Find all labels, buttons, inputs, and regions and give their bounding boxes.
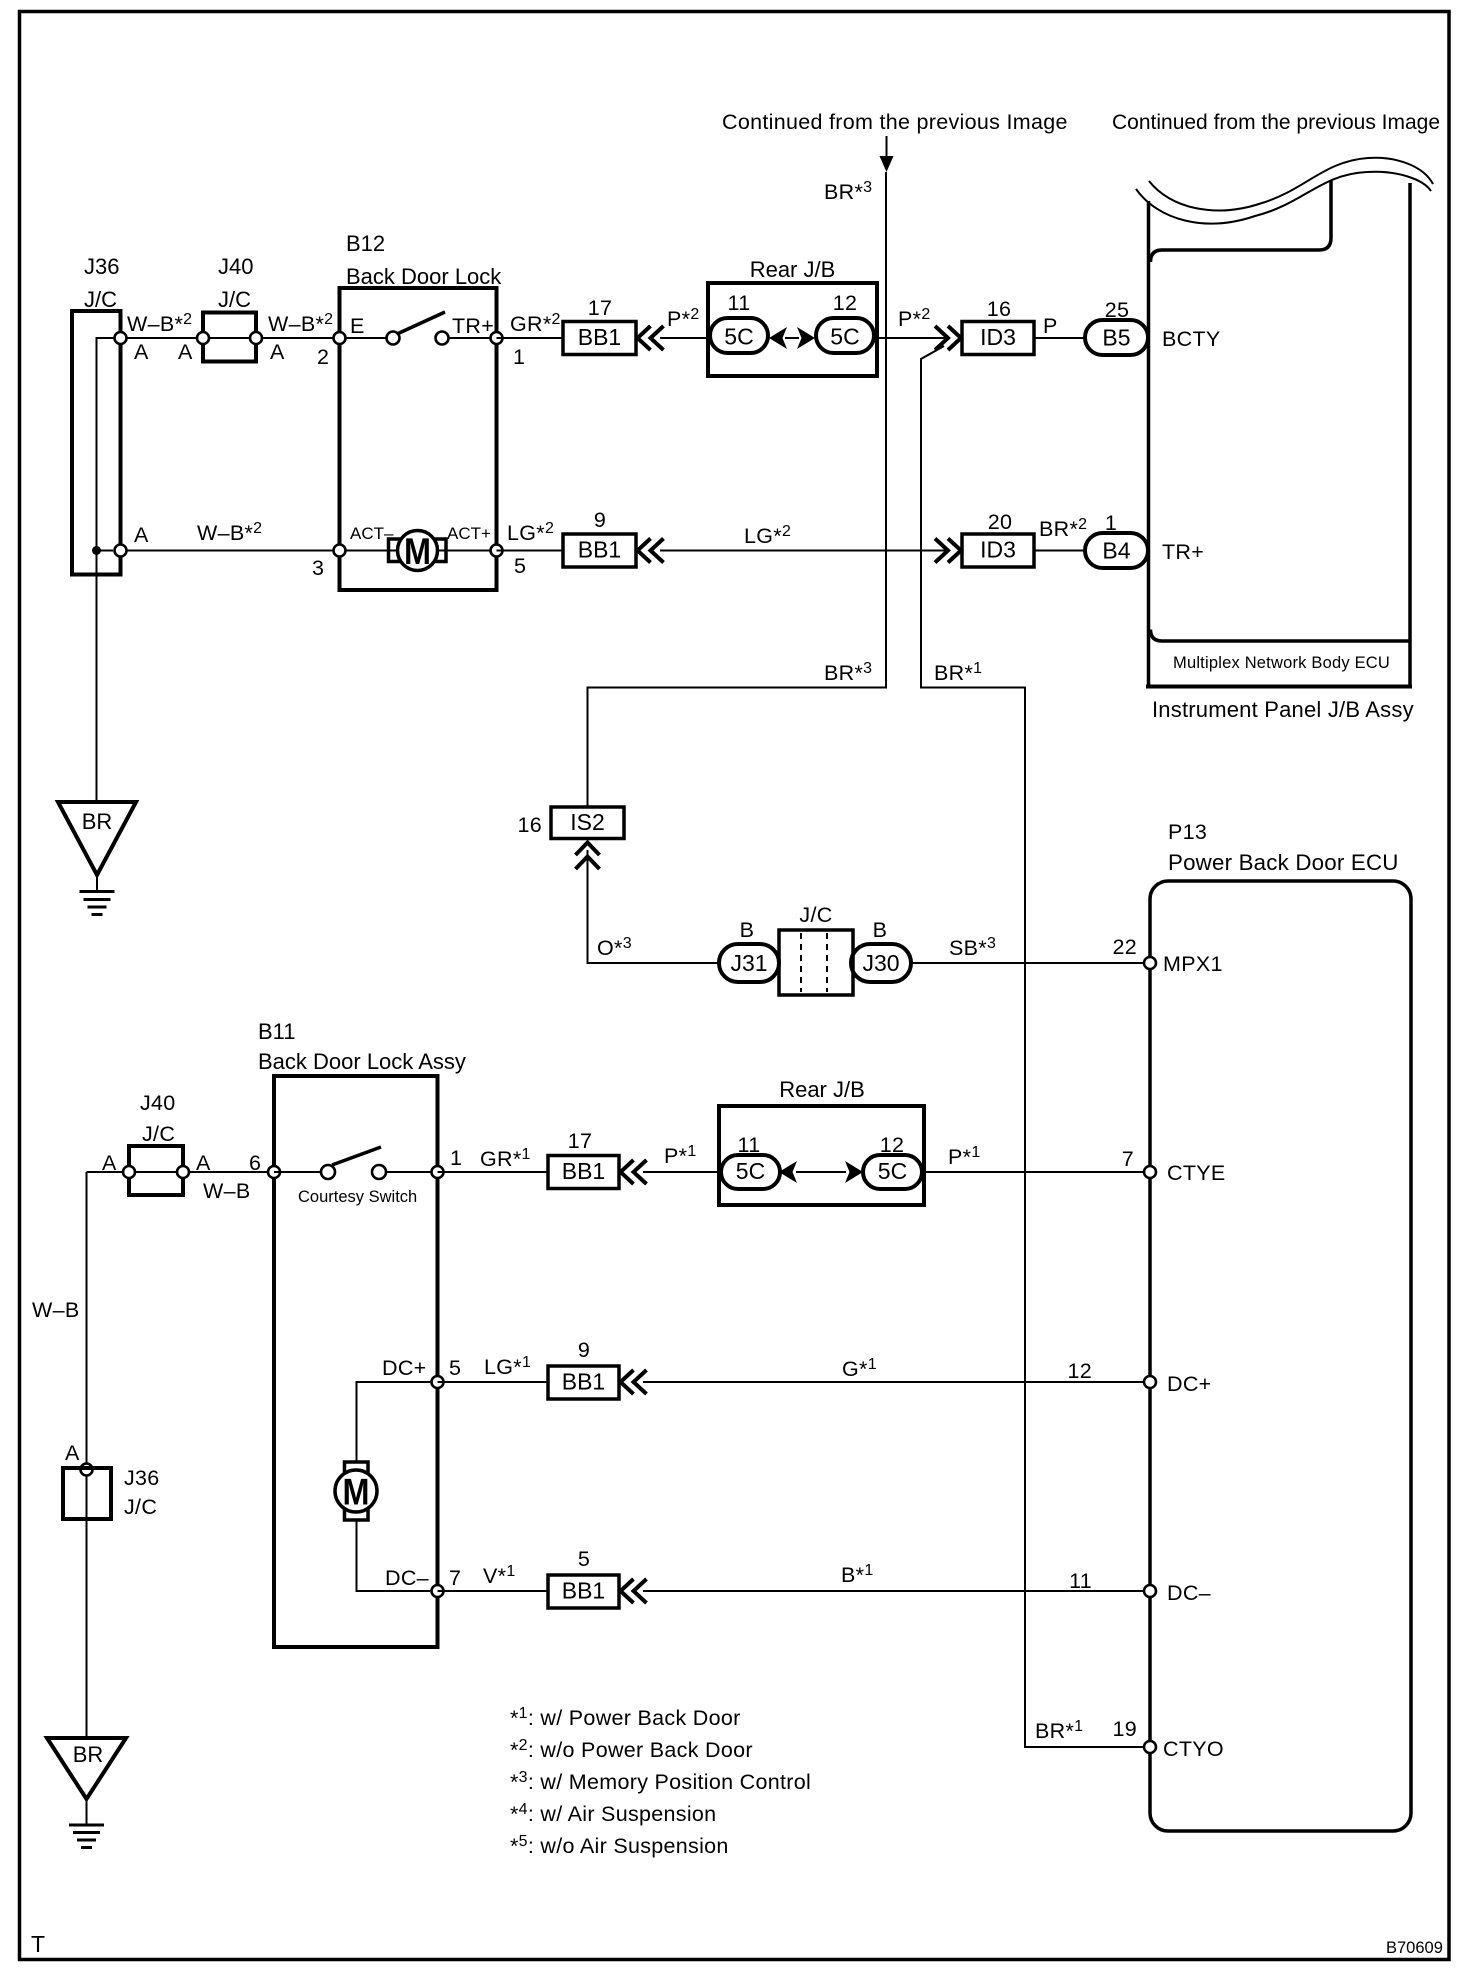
switch S2 lever — [332, 1147, 381, 1165]
svg-text:Power Back Door ECU: Power Back Door ECU — [1168, 850, 1399, 875]
svg-text:A: A — [134, 340, 149, 364]
pin 3 — [334, 545, 346, 557]
continued-from text left — [722, 110, 1068, 134]
B11 back door lock assy — [258, 1019, 466, 1647]
svg-text:ACT+: ACT+ — [447, 524, 491, 543]
label LG*2 — [744, 523, 791, 548]
label TR+ — [452, 314, 494, 338]
pin 5 B11 — [432, 1376, 444, 1388]
pin 1 — [491, 332, 503, 344]
pin A J36 — [115, 332, 127, 344]
wire J30 to MPX1 — [911, 962, 1144, 964]
svg-text:BB1: BB1 — [562, 1578, 605, 1604]
svg-text:Instrument Panel J/B Assy: Instrument Panel J/B Assy — [1152, 697, 1414, 722]
svg-text:3: 3 — [312, 556, 324, 580]
rear J/B (top) — [708, 257, 877, 376]
wire BB1 to DC+ pin — [643, 1381, 1144, 1383]
svg-text:DC–: DC– — [1167, 1581, 1211, 1605]
wire pin7 to BB1 — [438, 1590, 549, 1592]
svg-text:11: 11 — [728, 291, 751, 315]
svg-text:A: A — [65, 1441, 80, 1465]
svg-text:*1: w/ Power Back Door: *1: w/ Power Back Door — [510, 1705, 741, 1730]
label courtesy switch — [298, 1188, 417, 1206]
power back door ECU P13 — [1150, 820, 1411, 1831]
svg-text:5C: 5C — [724, 324, 753, 350]
pin A J40 lower left — [123, 1166, 135, 1178]
svg-text:17: 17 — [588, 296, 613, 320]
label B*1 — [841, 1562, 874, 1587]
connector B4 pin 1 — [1085, 511, 1148, 568]
multiplex ECU top line — [1151, 630, 1411, 642]
bottom edge — [1146, 685, 1412, 689]
label 12 — [1067, 1359, 1092, 1383]
label TR+ — [1162, 540, 1204, 564]
pin 5 — [491, 545, 503, 557]
svg-text:J/C: J/C — [124, 1495, 157, 1519]
torn edge wave lower — [1136, 172, 1431, 224]
label CTYE — [1167, 1161, 1226, 1185]
chevron female row1 — [638, 326, 664, 350]
svg-text:DC–: DC– — [385, 1566, 429, 1590]
svg-text:ID3: ID3 — [980, 324, 1016, 350]
connector 5C pin 11 lower — [721, 1133, 780, 1189]
pin A J40 left — [197, 332, 209, 344]
svg-text:J/C: J/C — [84, 287, 117, 312]
pin CTYO — [1144, 1741, 1156, 1753]
svg-text:Rear J/B: Rear J/B — [779, 1077, 865, 1102]
label A — [270, 340, 285, 364]
wire BR*1 branch — [921, 346, 1144, 1747]
chevron male up IS2 — [576, 843, 600, 870]
label P*1 — [664, 1143, 697, 1168]
wire switch to pin1 B11 — [379, 1171, 438, 1173]
instrument panel J/B assy (top right) — [1136, 158, 1433, 722]
wire left to B11 pin6 — [87, 1171, 275, 1173]
continued-from text right — [1112, 111, 1440, 134]
wire switch to pin1 — [442, 337, 497, 339]
svg-text:W–B*2: W–B*2 — [127, 311, 192, 336]
mating arrows — [769, 327, 815, 349]
svg-text:MPX1: MPX1 — [1163, 952, 1223, 976]
svg-text:DC+: DC+ — [382, 1356, 427, 1380]
svg-text:A: A — [102, 1151, 117, 1175]
label B70609 — [1386, 1939, 1443, 1957]
svg-text:P13: P13 — [1168, 820, 1207, 844]
svg-text:Back Door Lock: Back Door Lock — [346, 264, 502, 289]
svg-text:5C: 5C — [830, 324, 859, 350]
wire rear J/B to ID3 — [877, 337, 948, 339]
svg-text:W–B: W–B — [203, 1179, 251, 1203]
svg-text:CTYO: CTYO — [1163, 1737, 1224, 1761]
svg-text:9: 9 — [578, 1338, 590, 1362]
svg-text:E: E — [350, 314, 365, 338]
svg-text:TR+: TR+ — [452, 314, 494, 338]
label T — [31, 1931, 45, 1957]
label W-B*2 — [197, 520, 262, 545]
svg-text:B4: B4 — [1102, 538, 1130, 564]
wire IS2 to J31 — [588, 850, 720, 963]
junction connector J/C mid — [779, 903, 853, 995]
svg-text:16: 16 — [987, 297, 1012, 321]
svg-text:6: 6 — [249, 1151, 261, 1175]
svg-text:BR: BR — [73, 1742, 104, 1767]
connector 5C pin 12 lower — [863, 1133, 922, 1189]
label 5 — [449, 1356, 461, 1380]
svg-text:Continued from the previous Im: Continued from the previous Image — [722, 110, 1068, 134]
label P*2 — [667, 306, 700, 331]
rear J/B (lower) — [719, 1077, 924, 1205]
label W-B*2 — [268, 311, 333, 336]
svg-text:P: P — [1043, 314, 1058, 338]
svg-text:B70609: B70609 — [1386, 1939, 1443, 1957]
IS2 connector — [517, 807, 624, 839]
label A — [102, 1151, 117, 1175]
motor M2 — [335, 1462, 377, 1520]
label E — [350, 314, 365, 338]
svg-text:W–B*2: W–B*2 — [268, 311, 333, 336]
svg-text:11: 11 — [1069, 1569, 1092, 1593]
svg-text:J31: J31 — [730, 950, 767, 976]
svg-text:12: 12 — [833, 291, 858, 315]
row2: wire J36 to B12 pin3 — [121, 550, 340, 552]
svg-text:BB1: BB1 — [562, 1158, 605, 1184]
connector 5C pin 12 — [816, 291, 874, 353]
label 1 — [450, 1146, 462, 1170]
label ACT- — [350, 524, 394, 543]
torn edge wave upper — [1149, 158, 1433, 211]
label A — [65, 1441, 80, 1465]
footnotes — [510, 1705, 811, 1858]
pin A J40 lower right — [177, 1166, 189, 1178]
label B right — [873, 918, 888, 942]
label 2 — [317, 345, 329, 369]
chevron female DC+ — [621, 1370, 647, 1394]
svg-text:5C: 5C — [736, 1158, 765, 1184]
svg-text:5: 5 — [514, 554, 526, 578]
wire BR*3 vertical — [588, 172, 887, 807]
label GR*2 — [510, 311, 561, 336]
svg-text:W–B: W–B — [32, 1298, 80, 1322]
label O*3 — [597, 935, 632, 960]
wire pin3 to pin5 through motor — [340, 550, 497, 552]
label 5 — [514, 554, 526, 578]
connector B5 pin 25 — [1085, 298, 1148, 355]
connector J31 — [719, 944, 779, 982]
wire BB1 to ID3 row2 — [660, 550, 948, 552]
wire motor DC+ DC- inside B11 — [357, 1382, 438, 1591]
svg-text:BCTY: BCTY — [1162, 327, 1221, 351]
left edge — [1147, 201, 1151, 686]
label MPX1 — [1163, 952, 1223, 976]
svg-text:1: 1 — [450, 1146, 462, 1170]
svg-text:J40: J40 — [218, 254, 253, 279]
svg-text:*4: w/ Air Suspension: *4: w/ Air Suspension — [510, 1801, 716, 1826]
pin DC- — [1144, 1585, 1156, 1597]
label 3 — [312, 556, 324, 580]
svg-text:5: 5 — [449, 1356, 461, 1380]
label A — [196, 1151, 211, 1175]
svg-text:17: 17 — [568, 1129, 593, 1153]
inner partition — [1151, 180, 1332, 262]
switch contact — [321, 1165, 335, 1179]
svg-text:J36: J36 — [124, 1466, 160, 1490]
pin A J40 right — [250, 332, 262, 344]
svg-text:CTYE: CTYE — [1167, 1161, 1226, 1185]
label W-B — [32, 1298, 80, 1322]
junction connector J36 (top) — [72, 254, 121, 575]
pin 2 — [334, 332, 346, 344]
chevron female DC- — [621, 1579, 647, 1603]
label A — [178, 340, 193, 364]
svg-text:12: 12 — [1067, 1359, 1092, 1383]
svg-text:B11: B11 — [258, 1019, 296, 1044]
wire pin1 to BB1 — [497, 337, 564, 339]
svg-text:Courtesy Switch: Courtesy Switch — [298, 1188, 417, 1206]
label 22 — [1112, 935, 1137, 959]
svg-text:BB1: BB1 — [578, 324, 621, 350]
svg-text:T: T — [31, 1931, 45, 1957]
svg-text:5: 5 — [578, 1547, 590, 1571]
switch S1 lever — [397, 312, 445, 334]
svg-text:BB1: BB1 — [562, 1369, 605, 1395]
svg-text:W–B*2: W–B*2 — [197, 520, 262, 545]
svg-text:M: M — [404, 531, 431, 572]
svg-text:Back Door Lock Assy: Back Door Lock Assy — [258, 1049, 466, 1074]
chevron female row2 — [638, 539, 664, 563]
chevron male row2 — [935, 539, 961, 563]
label DC- — [1167, 1581, 1211, 1605]
svg-text:B12: B12 — [346, 231, 385, 256]
svg-text:7: 7 — [449, 1566, 461, 1590]
label P*1 — [948, 1144, 981, 1169]
motor M1 — [389, 531, 447, 573]
junction connector J36 (lower) — [63, 1466, 160, 1519]
svg-text:IS2: IS2 — [570, 809, 605, 835]
wire BB1 to Rear J/B — [660, 337, 710, 339]
label 7 — [1122, 1147, 1134, 1171]
wire row1 J36 to B12 — [121, 337, 340, 339]
pin 6 — [268, 1166, 280, 1178]
wire rear J/B to CTYE — [924, 1171, 1144, 1173]
label 7 — [449, 1566, 461, 1590]
label 6 — [249, 1151, 261, 1175]
wire to rear J/B lower — [643, 1171, 721, 1173]
label A — [134, 340, 149, 364]
connector BB1 row2 — [563, 508, 636, 567]
connector ID3 row2 — [962, 510, 1034, 567]
label 1 — [513, 345, 525, 369]
label 11 — [1069, 1569, 1092, 1593]
svg-text:ID3: ID3 — [980, 537, 1016, 563]
label DC+ — [382, 1356, 427, 1380]
connector 5C pin 11 — [710, 291, 768, 353]
back door lock B12 — [340, 231, 503, 590]
wire pin2 to switch — [340, 337, 394, 339]
chevron male row1 — [935, 326, 961, 350]
svg-text:B: B — [740, 918, 755, 942]
label SB*3 — [949, 935, 996, 960]
svg-text:20: 20 — [988, 510, 1013, 534]
label ACT+ — [447, 524, 491, 543]
pin MPX1 — [1144, 957, 1156, 969]
chevron female CTYE — [621, 1160, 647, 1184]
svg-text:2: 2 — [317, 345, 329, 369]
svg-text:*2: w/o Power Back Door: *2: w/o Power Back Door — [510, 1737, 753, 1762]
svg-text:J/C: J/C — [799, 903, 832, 927]
label BR*1 CTYO — [1035, 1718, 1083, 1743]
label P*2 — [898, 306, 931, 331]
svg-text:J/C: J/C — [142, 1122, 175, 1146]
label LG*2 — [507, 520, 554, 545]
svg-text:J36: J36 — [84, 254, 119, 279]
label W-B*2 — [127, 311, 192, 336]
pin A row2 — [115, 545, 127, 557]
ground BR (bottom) — [47, 1738, 126, 1848]
svg-text:*3: w/ Memory Position Control: *3: w/ Memory Position Control — [510, 1769, 811, 1794]
label W-B — [203, 1179, 251, 1203]
svg-text:BR: BR — [82, 809, 113, 834]
connector BB1 DC- — [548, 1547, 619, 1608]
wire ID3 to B4 — [1034, 550, 1085, 552]
label DC- — [385, 1566, 429, 1590]
svg-text:16: 16 — [517, 813, 542, 837]
junction connector J40 (lower) — [129, 1091, 183, 1195]
junction dot — [92, 546, 101, 555]
label BR*3 mid — [824, 660, 872, 685]
continued arrow down — [880, 136, 894, 172]
svg-text:J40: J40 — [140, 1091, 176, 1115]
label A — [134, 523, 149, 547]
pin CTYE — [1144, 1166, 1156, 1178]
svg-text:DC+: DC+ — [1167, 1372, 1212, 1396]
switch contact — [387, 332, 400, 345]
svg-text:5C: 5C — [878, 1158, 907, 1184]
wire inside J36 — [97, 338, 115, 802]
pin A J36 lower — [81, 1464, 93, 1476]
wire pin5 to BB1 — [497, 550, 564, 552]
label 19 — [1112, 1717, 1137, 1741]
wire W-B down left — [86, 1172, 88, 1738]
label DC+ — [1167, 1372, 1212, 1396]
label B left — [740, 918, 755, 942]
svg-text:J30: J30 — [862, 950, 899, 976]
wire pin6 to switch — [274, 1171, 328, 1173]
svg-text:Rear J/B: Rear J/B — [750, 257, 836, 282]
svg-text:7: 7 — [1122, 1147, 1134, 1171]
label BR*3 top — [824, 179, 872, 204]
svg-text:9: 9 — [594, 508, 606, 532]
svg-text:A: A — [196, 1151, 211, 1175]
connector BB1 CTYE row — [548, 1129, 619, 1189]
ground wire left top — [96, 574, 98, 802]
label P — [1043, 314, 1058, 338]
mating arrows lower — [779, 1161, 863, 1183]
label LG*1 — [484, 1354, 531, 1379]
label BR*2 — [1039, 516, 1087, 541]
svg-text:Continued from the previous Im: Continued from the previous Image — [1112, 111, 1440, 134]
svg-text:A: A — [134, 523, 149, 547]
label BR*1 mid — [934, 660, 982, 685]
connector BB1 DC+ — [548, 1338, 619, 1399]
svg-text:A: A — [270, 340, 285, 364]
junction connector J40 (top) — [203, 254, 256, 362]
pin 7 B11 — [432, 1585, 444, 1597]
svg-text:J/C: J/C — [218, 287, 251, 312]
label BCTY — [1162, 327, 1221, 351]
connector ID3 row1 — [962, 297, 1034, 355]
label V*1 — [483, 1563, 516, 1588]
svg-text:1: 1 — [513, 345, 525, 369]
svg-text:M: M — [343, 1472, 370, 1513]
svg-text:B: B — [873, 918, 888, 942]
ground BR (top) — [58, 802, 136, 915]
svg-text:TR+: TR+ — [1162, 540, 1204, 564]
pin DC+ — [1144, 1376, 1156, 1388]
right edge — [1408, 183, 1412, 686]
pin 1 B11 — [432, 1166, 444, 1178]
svg-text:22: 22 — [1112, 935, 1137, 959]
svg-text:*5: w/o Air Suspension: *5: w/o Air Suspension — [510, 1833, 729, 1858]
label G*1 — [842, 1356, 877, 1381]
wire ID3 to B5 — [1034, 337, 1085, 339]
svg-text:B5: B5 — [1102, 325, 1130, 351]
connector BB1 row1 — [563, 296, 636, 355]
wire BB1 to DC- pin — [643, 1590, 1144, 1592]
switch contact — [372, 1165, 386, 1179]
connector J30 — [851, 944, 911, 982]
label CTYO — [1163, 1737, 1224, 1761]
wire pin1 to BB1 — [438, 1171, 549, 1173]
svg-text:A: A — [178, 340, 193, 364]
svg-text:BB1: BB1 — [578, 537, 621, 563]
svg-text:Multiplex Network Body ECU: Multiplex Network Body ECU — [1173, 654, 1390, 672]
svg-text:19: 19 — [1112, 1717, 1137, 1741]
wire pin5 to BB1 DC+ — [438, 1381, 549, 1383]
switch contact — [436, 332, 449, 345]
label GR*1 — [480, 1146, 531, 1171]
